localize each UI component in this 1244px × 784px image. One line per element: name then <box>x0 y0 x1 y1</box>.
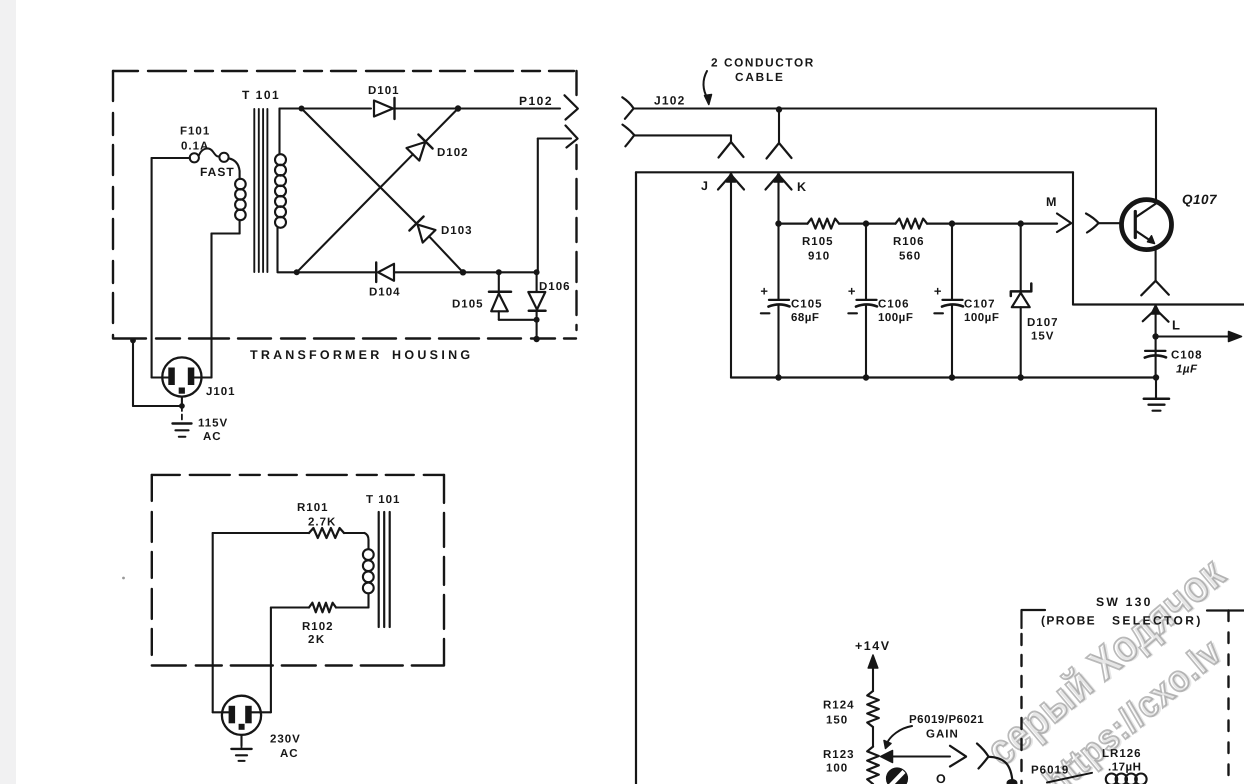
svg-text:J102: J102 <box>654 94 686 108</box>
svg-text:100: 100 <box>826 763 848 775</box>
svg-text:C106: C106 <box>878 299 910 311</box>
svg-text:C105: C105 <box>791 299 823 311</box>
svg-text:230V: 230V <box>270 734 301 746</box>
svg-text:GAIN: GAIN <box>926 729 959 741</box>
svg-text:AC: AC <box>203 431 222 443</box>
svg-text:SELECTOR): SELECTOR) <box>1112 614 1203 628</box>
svg-text:1µF: 1µF <box>1176 364 1198 376</box>
svg-text:FAST: FAST <box>200 165 235 179</box>
svg-text:R123: R123 <box>823 749 855 761</box>
svg-text:C108: C108 <box>1171 350 1203 362</box>
svg-text:R105: R105 <box>802 236 834 248</box>
svg-text:0.1A: 0.1A <box>181 141 209 153</box>
svg-text:2 CONDUCTOR: 2 CONDUCTOR <box>711 56 815 70</box>
svg-text:+14V: +14V <box>855 639 891 653</box>
svg-text:910: 910 <box>808 251 830 263</box>
svg-text:TRANSFORMER: TRANSFORMER <box>250 348 382 362</box>
svg-text:150: 150 <box>826 715 848 727</box>
svg-text:AC: AC <box>280 748 299 760</box>
svg-text:C107: C107 <box>964 299 996 311</box>
svg-text:2.7K: 2.7K <box>308 517 336 529</box>
svg-text:CABLE: CABLE <box>735 70 785 84</box>
svg-text:D107: D107 <box>1027 317 1059 329</box>
svg-text:100µF: 100µF <box>964 312 999 324</box>
svg-text:D106: D106 <box>539 281 571 293</box>
svg-text:560: 560 <box>899 251 921 263</box>
svg-text:T 101: T 101 <box>366 494 400 506</box>
svg-text:P6019/P6021: P6019/P6021 <box>909 714 984 726</box>
svg-text:T 101: T 101 <box>242 88 280 102</box>
svg-text:D102: D102 <box>437 147 469 159</box>
svg-text:HOUSING: HOUSING <box>392 348 473 362</box>
svg-text:Q107: Q107 <box>1182 192 1218 207</box>
svg-text:O: O <box>936 772 946 784</box>
svg-text:D104: D104 <box>369 287 401 299</box>
svg-text:D101: D101 <box>368 85 400 97</box>
svg-text:R124: R124 <box>823 700 855 712</box>
svg-text:+: + <box>848 284 856 299</box>
svg-text:J101: J101 <box>206 386 236 398</box>
svg-text:15V: 15V <box>1031 331 1054 343</box>
svg-text:D103: D103 <box>441 225 473 237</box>
svg-text:J: J <box>701 179 708 193</box>
svg-text:+: + <box>760 284 768 299</box>
svg-text:D105: D105 <box>452 299 484 311</box>
svg-text:.17µH: .17µH <box>1108 762 1141 774</box>
svg-text:(PROBE: (PROBE <box>1041 614 1096 628</box>
svg-text:P6019: P6019 <box>1031 765 1069 777</box>
svg-text:SW 130: SW 130 <box>1096 595 1153 609</box>
svg-text:68µF: 68µF <box>791 312 819 324</box>
svg-text:100µF: 100µF <box>878 312 913 324</box>
svg-text:LR126: LR126 <box>1102 748 1142 760</box>
svg-text:R101: R101 <box>297 502 329 514</box>
svg-text:+: + <box>934 284 942 299</box>
svg-text:L: L <box>1172 318 1180 333</box>
svg-text:R106: R106 <box>893 236 925 248</box>
svg-text:2K: 2K <box>308 634 326 646</box>
svg-text:P102: P102 <box>519 94 553 108</box>
svg-text:R102: R102 <box>302 621 334 633</box>
svg-text:K: K <box>797 180 806 194</box>
svg-text:M: M <box>1046 195 1056 209</box>
svg-text:115V: 115V <box>198 418 228 430</box>
svg-text:F101: F101 <box>180 126 210 138</box>
